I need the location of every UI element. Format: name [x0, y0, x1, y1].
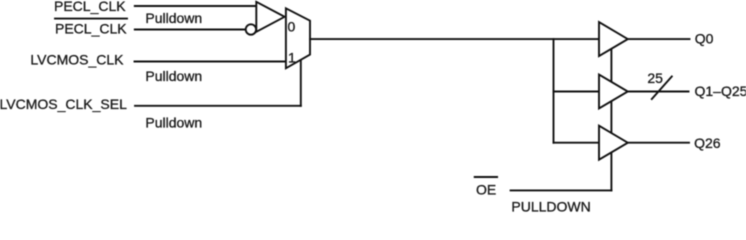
svg-text:Pulldown: Pulldown [145, 68, 202, 84]
inverting bubble on U1 [246, 24, 256, 34]
wire OE enable vertical [610, 50, 612, 190]
wire LVCMOS_CLK [135, 61, 286, 63]
node /PECL_CLK overline [55, 18, 127, 20]
output buffer U4 [599, 75, 628, 109]
wire LVCMOS_CLK_SEL vertical to mux select [300, 59, 302, 106]
svg-text:LVCMOS_CLK_SEL: LVCMOS_CLK_SEL [0, 96, 127, 112]
input buffer U1 differential PECL [256, 2, 284, 32]
svg-text:25: 25 [647, 70, 663, 86]
svg-text:1: 1 [288, 50, 296, 66]
wire Q26 [628, 142, 689, 144]
wire branch to buffer 2 [554, 91, 600, 93]
wire LVCMOS_CLK_SEL horizontal [135, 105, 301, 107]
wire Q1-Q25 [628, 91, 689, 93]
bus width slash 25 [652, 77, 672, 100]
wire PECL_CLK [135, 5, 256, 7]
svg-text:Pulldown: Pulldown [145, 115, 202, 131]
mux U2 [286, 8, 310, 68]
node OE overline [475, 176, 497, 178]
wire mux output to buffers [310, 38, 599, 40]
svg-text:Pulldown: Pulldown [145, 10, 202, 26]
wire branch to buffer 3 [554, 142, 600, 144]
svg-text:Q26: Q26 [694, 135, 721, 151]
output buffer U3 [599, 22, 628, 56]
svg-text:Q1–Q25: Q1–Q25 [695, 83, 746, 99]
output buffer U5 [599, 126, 628, 160]
svg-text:PULLDOWN: PULLDOWN [511, 199, 590, 215]
wire Q0 [628, 38, 690, 40]
svg-text:Q0: Q0 [695, 31, 714, 47]
svg-text:0: 0 [288, 19, 296, 35]
wire /PECL_CLK [135, 29, 246, 31]
svg-text:OE: OE [476, 182, 496, 198]
svg-text:PECL_CLK: PECL_CLK [54, 0, 126, 14]
wire bus vertical [553, 39, 555, 143]
svg-text:PECL_CLK: PECL_CLK [55, 21, 127, 37]
svg-text:LVCMOS_CLK: LVCMOS_CLK [30, 52, 124, 68]
wire OE [511, 189, 612, 191]
